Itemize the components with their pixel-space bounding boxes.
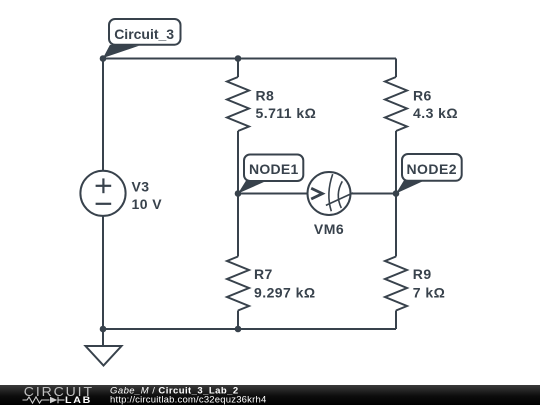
wire left rail lower xyxy=(102,215,104,329)
wire middle branch mid xyxy=(237,131,239,257)
svg-text:R7: R7 xyxy=(254,266,273,282)
node NODE2 junction xyxy=(393,190,400,197)
label V3 value xyxy=(132,178,163,212)
svg-text:NODE1: NODE1 xyxy=(249,161,298,177)
svg-text:7 kΩ: 7 kΩ xyxy=(413,285,446,301)
wire middle branch bottom lead xyxy=(237,311,239,330)
resistor R6 xyxy=(385,77,407,131)
svg-text:R9: R9 xyxy=(413,266,432,282)
node junction top-middle xyxy=(235,55,242,62)
wire right branch bottom lead xyxy=(395,311,397,330)
svg-text:R6: R6 xyxy=(413,88,432,104)
svg-text:V3: V3 xyxy=(132,178,150,194)
wire left rail upper xyxy=(102,59,104,172)
node junction top-left xyxy=(100,55,107,62)
wire right branch mid xyxy=(395,131,397,257)
label callout NODE2 xyxy=(396,154,462,194)
label R8 value xyxy=(256,88,317,121)
footer title text xyxy=(110,385,266,405)
footer logo CIRCUIT LAB xyxy=(23,384,94,405)
voltmeter VM6 xyxy=(308,172,354,215)
wire middle branch top lead xyxy=(237,59,239,78)
svg-text:4.3 kΩ: 4.3 kΩ xyxy=(413,105,458,121)
node junction bottom-left xyxy=(100,326,107,333)
label callout Circuit_3 xyxy=(103,19,181,58)
footer bar xyxy=(0,385,540,405)
label R7 value xyxy=(254,266,316,301)
voltage source V3 xyxy=(80,171,125,216)
svg-text:VM6: VM6 xyxy=(314,221,344,237)
label R9 value xyxy=(413,266,446,301)
svg-text:5.711 kΩ: 5.711 kΩ xyxy=(256,105,317,121)
wire top rail xyxy=(103,58,396,60)
node NODE1 junction xyxy=(235,190,242,197)
wire NODE1 to voltmeter xyxy=(238,193,308,195)
wire bottom rail xyxy=(103,328,396,330)
svg-text:Circuit_3: Circuit_3 xyxy=(114,26,174,42)
label R6 value xyxy=(413,88,458,121)
svg-text:http://circuitlab.com/c32equz3: http://circuitlab.com/c32equz36krh4 xyxy=(110,395,266,405)
resistor R8 xyxy=(227,77,249,131)
svg-text:LAB: LAB xyxy=(65,396,92,405)
ground xyxy=(86,346,122,366)
label callout NODE1 xyxy=(238,155,303,194)
svg-text:R8: R8 xyxy=(256,88,275,104)
label VM6 xyxy=(314,221,344,237)
svg-text:9.297 kΩ: 9.297 kΩ xyxy=(254,285,316,301)
node junction bottom-middle xyxy=(235,326,242,333)
svg-text:10 V: 10 V xyxy=(132,196,163,212)
resistor R9 xyxy=(385,257,407,311)
svg-text:NODE2: NODE2 xyxy=(407,161,457,177)
wire ground stub xyxy=(102,329,104,346)
wire voltmeter to NODE2 xyxy=(351,193,397,195)
resistor R7 xyxy=(227,257,249,311)
wire right branch top lead xyxy=(395,59,397,78)
